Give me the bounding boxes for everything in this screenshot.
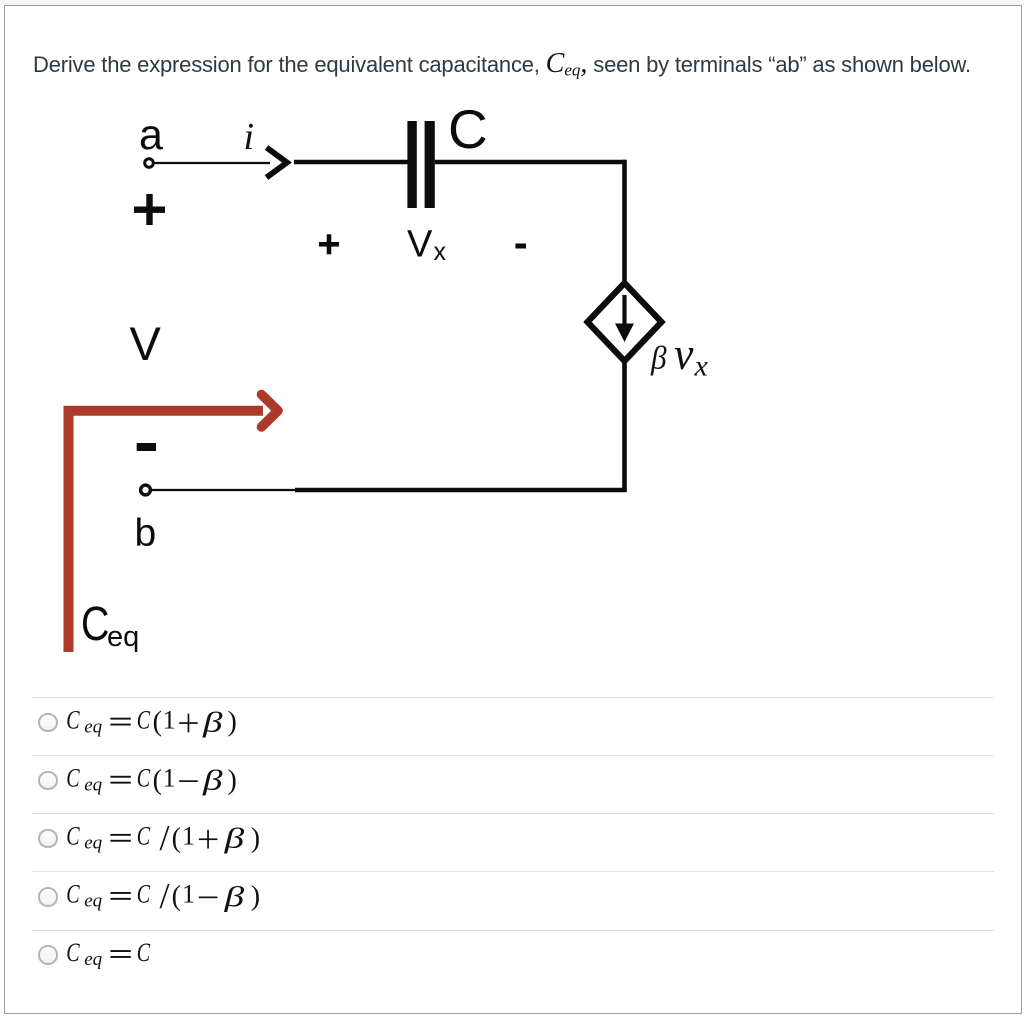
dependent current source diamond [588,283,662,361]
right vertical wire above source [622,160,627,286]
svg-text:eq: eq [84,949,102,970]
svg-text:1: 1 [163,705,176,734]
svg-text:v: v [674,328,693,379]
terminal a [145,159,154,168]
label Vx [407,224,447,267]
svg-text:(: ( [172,823,181,854]
option 4 radio [38,887,58,907]
svg-text:C: C [137,764,151,793]
top strip [0,0,1024,5]
plus sign at terminal a [134,194,165,225]
svg-text:): ) [251,881,260,912]
option 3 radio [38,829,58,849]
minus sign at terminal b [137,443,156,451]
svg-text:C: C [66,938,80,967]
svg-text:x: x [434,238,447,266]
wire capacitor to top-right corner [435,160,627,165]
option 5 radio [38,945,58,965]
option 2 radio [38,771,58,791]
svg-text:C: C [66,706,80,735]
svg-text:1: 1 [163,764,176,793]
svg-text:C: C [66,880,80,909]
svg-text:b: b [135,512,157,555]
plus label for Vx [319,234,339,254]
option 1 math: Ceq = C(1+beta) [66,705,237,738]
svg-text:β: β [202,765,224,797]
capacitor C [407,121,434,208]
svg-text:C: C [448,98,488,160]
svg-text:V: V [130,317,162,370]
Ceq measurement red arrow [69,411,264,652]
svg-text:): ) [228,707,237,738]
svg-text:eq: eq [84,891,102,912]
svg-text:β: β [650,339,667,376]
svg-text:C: C [137,938,151,967]
svg-text:C: C [137,822,151,851]
svg-text:(: ( [172,881,181,912]
svg-text:β: β [202,707,224,739]
svg-text:C: C [66,822,80,851]
svg-text:β: β [223,823,245,855]
svg-text:): ) [228,765,237,796]
arrow inside dependent source [615,295,634,342]
svg-text:C: C [137,706,151,735]
svg-text:eq: eq [84,775,102,796]
label Ceq [81,597,139,653]
svg-text:β: β [223,881,245,913]
svg-text:x: x [694,350,709,383]
svg-text:eq: eq [84,833,102,854]
terminal b [141,485,151,495]
option separators [32,697,994,698]
svg-text:/: / [160,876,170,916]
label beta-vx [650,328,708,383]
right vertical wire below source [622,358,627,490]
svg-text:1: 1 [182,822,195,851]
svg-text:C: C [137,880,151,909]
svg-text:C: C [81,597,109,651]
svg-text:i: i [244,116,255,158]
svg-text:1: 1 [182,880,195,909]
wire from terminal a to current arrow [154,162,270,164]
red arrow head [262,395,279,427]
option 1 radio [38,713,58,733]
question title [33,51,971,78]
svg-text:/: / [160,818,170,858]
svg-text:a: a [139,111,163,159]
bottom wire thick segment [295,488,627,493]
option 5 math: Ceq = C [66,938,150,969]
minus label for Vx [515,244,526,249]
svg-text:(: ( [153,765,162,796]
svg-text:V: V [407,224,433,266]
option 2 math: Ceq = C(1-beta) [66,764,237,797]
svg-text:): ) [251,823,260,854]
svg-text:eq: eq [84,716,102,737]
option 4 math: Ceq = C/(1-beta) [66,876,260,916]
svg-text:C: C [66,764,80,793]
current arrow head [267,148,288,178]
option 3 math: Ceq = C/(1+beta) [66,818,260,858]
svg-text:eq: eq [107,621,139,653]
wire from arrow to capacitor [294,160,408,165]
bottom wire thin segment to terminal b [152,489,297,491]
svg-text:(: ( [153,707,162,738]
